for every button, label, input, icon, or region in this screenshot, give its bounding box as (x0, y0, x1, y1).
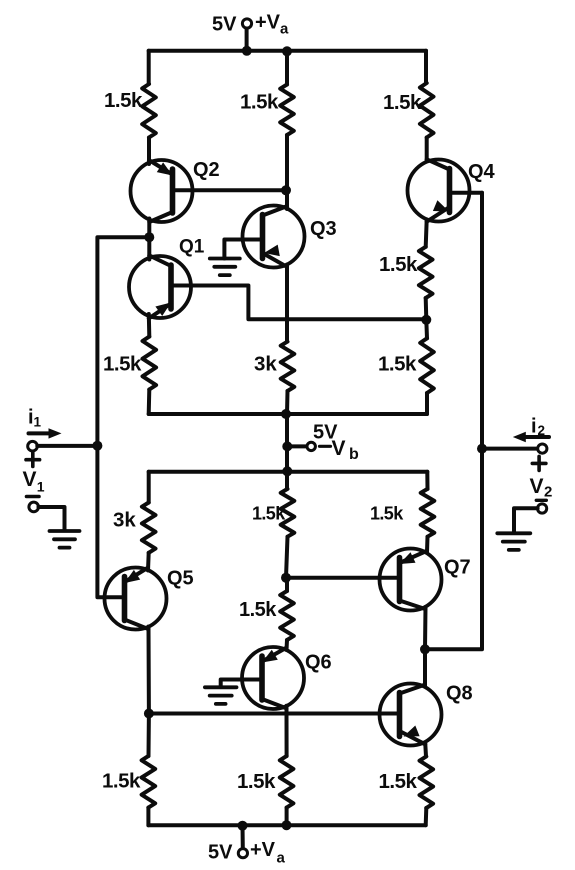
wire R4 to mid rail (147, 390, 152, 415)
resistor R11 1.5k (above Q6) (280, 591, 294, 640)
wire Q7 collector down to node F (423, 607, 428, 649)
wire Q6 bus to R13 (285, 714, 289, 757)
node A (Q2 base / Q3 collector) (281, 185, 291, 195)
wire rail to R8 (147, 472, 151, 503)
wire Q1 base (step to node C) (171, 286, 426, 320)
node bottom rail (5V) (238, 821, 248, 831)
resistor R9 1.5k (lower middle) (281, 489, 295, 537)
terminal -Vb (307, 442, 315, 450)
resistor R7 1.5k (right middle) (420, 338, 434, 393)
wire V1- to ground (39, 507, 65, 531)
resistor R4 1.5k (below Q1) (143, 337, 157, 390)
wire V2- to ground (514, 508, 538, 532)
node bottom rail / middle column (282, 820, 292, 830)
wire R8 to Q5 (146, 553, 151, 571)
transistor Q7 (380, 549, 442, 611)
wire Q3 emitter down to R5 (285, 265, 289, 342)
svg-text:5V: 5V (212, 14, 237, 36)
wire R12 to bottom rail (146, 808, 150, 826)
arrow i1 (29, 431, 51, 435)
wire R1 to Q2 (147, 138, 151, 165)
wire V1 terminal to left trunk (37, 444, 97, 448)
wire middle column to lower mid rail (285, 446, 289, 471)
svg-text:+V: +V (255, 12, 281, 34)
resistor R13 1.5k (bottom middle) (280, 756, 294, 808)
svg-text:i: i (531, 416, 537, 438)
svg-text:5V: 5V (208, 842, 233, 864)
wire R14 to bottom rail (424, 808, 429, 825)
terminal +Va (bottom) (238, 849, 247, 858)
wire middle column between rails (285, 414, 289, 446)
resistor R3 1.5k (top right) (420, 83, 434, 138)
ground (Q6) (205, 685, 237, 689)
wire node B to Q1 collector (147, 237, 151, 259)
svg-text:1.5k: 1.5k (379, 770, 418, 793)
arrow i2 (526, 435, 549, 439)
label -Vb (middle) (320, 445, 331, 448)
svg-text:1: 1 (37, 479, 45, 495)
resistor R14 1.5k (bottom right) (420, 756, 434, 808)
wire node C to R7 (424, 320, 429, 339)
wire upper mid rail (149, 412, 427, 416)
wire Q8 emitter to R14 (423, 743, 428, 757)
node top rail / middle column (282, 46, 292, 56)
svg-text:a: a (277, 850, 286, 867)
node left trunk / V1 (92, 441, 102, 451)
transistor Q4 (408, 159, 470, 221)
terminal +Va (top) (242, 19, 251, 28)
label + (V1) (26, 458, 40, 462)
node C (421, 315, 431, 325)
wire Q2 base to node A (173, 188, 288, 192)
node E (left column) (144, 709, 154, 719)
wire Q6 base to ground (221, 680, 262, 688)
svg-text:Q2: Q2 (193, 159, 220, 181)
label + (V2) (532, 462, 546, 466)
ground (V1) (50, 529, 80, 533)
resistor R8 3k (lower left) (142, 503, 156, 553)
svg-text:Q4: Q4 (468, 161, 496, 183)
svg-text:1.5k: 1.5k (104, 89, 143, 112)
wire middle column to R2 (285, 51, 289, 85)
svg-text:2: 2 (544, 484, 552, 501)
svg-text:1.5k: 1.5k (102, 770, 141, 793)
node upper mid rail / middle column (281, 409, 291, 419)
svg-text:1.5k: 1.5k (379, 253, 418, 276)
svg-text:1.5k: 1.5k (103, 353, 142, 376)
svg-text:1.5k: 1.5k (383, 91, 422, 114)
label - (V2) (536, 499, 546, 502)
resistor R6 1.5k (below Q4) (419, 247, 433, 298)
node -Vb junction (282, 441, 292, 451)
wire horizontal bus (node E to Q8 base) (149, 712, 400, 716)
node on top rail (5V) (242, 46, 252, 56)
svg-text:a: a (280, 21, 289, 38)
wire bottom rail to terminal (241, 825, 245, 848)
wire rail to R9 (285, 472, 289, 489)
svg-text:V: V (23, 468, 37, 491)
transistor Q5 (105, 568, 167, 630)
wire node B to left trunk (97, 237, 149, 597)
svg-text:Q7: Q7 (444, 557, 471, 579)
wire node F to Q8 collector (423, 649, 427, 686)
wire right column to R3 (424, 51, 428, 83)
wire node A down to Q3 collector (285, 190, 289, 209)
wire Q2 emitter down to node B (147, 219, 151, 238)
wire Q4 base to right trunk (450, 191, 483, 195)
wire R3 to Q4 (425, 138, 429, 162)
wire R2 down to node A (285, 135, 289, 190)
resistor R5 3k (middle) (281, 342, 295, 391)
wire R7 to mid rail (425, 393, 429, 414)
node D (Q7 base junction) (281, 573, 291, 583)
wire top rail (149, 49, 426, 53)
svg-text:Q5: Q5 (167, 568, 194, 590)
wire bottom rail (148, 823, 425, 827)
wire Q5 collector down (147, 627, 151, 714)
svg-text:1.5k: 1.5k (252, 504, 286, 524)
wire to -Vb terminal (287, 444, 307, 448)
svg-text:3k: 3k (113, 509, 136, 532)
svg-text:3k: 3k (254, 353, 277, 376)
transistor Q3 (243, 206, 305, 268)
wire rail to R10 (425, 472, 429, 489)
svg-text:Q8: Q8 (446, 683, 473, 705)
wire Q6 collector to bus (285, 706, 289, 714)
svg-text:1: 1 (34, 415, 42, 430)
svg-text:Q3: Q3 (310, 218, 337, 240)
node B (Q2-Q1 junction) (144, 232, 154, 242)
svg-text:1.5k: 1.5k (239, 599, 277, 621)
wire node D to Q7 base (286, 576, 400, 580)
svg-text:1.5k: 1.5k (237, 770, 276, 793)
label - (V1) (27, 495, 40, 499)
node lower mid rail / middle column (282, 466, 292, 476)
wire terminal to top rail (245, 29, 249, 51)
wire Q4 emitter to R6 (426, 220, 427, 247)
transistor Q6 (242, 647, 304, 709)
svg-text:1.5k: 1.5k (240, 91, 279, 114)
wire Q1 emitter down to R4 (147, 314, 152, 337)
ground (V2) (497, 531, 530, 535)
wire right trunk to V2 terminal (482, 447, 538, 451)
wire Q3 base to ground (224, 240, 262, 259)
node F (Q7/Q8/right trunk) (420, 644, 430, 654)
transistor Q8 (380, 684, 442, 746)
wire R9 to node D (286, 537, 288, 578)
svg-text:Q1: Q1 (179, 237, 205, 258)
svg-text:Q6: Q6 (305, 652, 332, 674)
wire node E to R12 (147, 714, 151, 757)
wire R11 to Q6 (285, 640, 290, 650)
wire R10 to Q7 (425, 537, 430, 552)
svg-text:V: V (530, 475, 544, 498)
wire node D to R11 (285, 578, 289, 591)
resistor R10 1.5k (lower right) (421, 489, 435, 537)
svg-text:V: V (332, 437, 346, 460)
resistor R2 1.5k (top middle) (280, 85, 294, 136)
wire R13 to bottom rail (285, 808, 289, 826)
svg-text:b: b (349, 446, 359, 463)
wire R6 to node C (424, 298, 429, 319)
resistor R12 1.5k (bottom left) (142, 756, 156, 808)
transistor Q2 (131, 160, 193, 222)
svg-text:1.5k: 1.5k (370, 504, 404, 524)
terminal V2- (538, 504, 547, 513)
terminal V1- (29, 502, 39, 512)
ground (Q3 base) (210, 257, 240, 261)
transistor Q1 (129, 255, 191, 318)
svg-text:+V: +V (250, 839, 276, 861)
resistor R1 1.5k (top left) (142, 84, 156, 138)
terminal V1+ (28, 441, 38, 451)
svg-text:1.5k: 1.5k (378, 353, 417, 376)
wire R5 to mid rail (285, 391, 290, 414)
wire left column to R1 (147, 51, 151, 84)
node right trunk / V2 (477, 444, 487, 454)
terminal V2+ (538, 444, 547, 453)
wire right trunk down (425, 193, 482, 650)
wire lower mid rail (149, 470, 428, 474)
